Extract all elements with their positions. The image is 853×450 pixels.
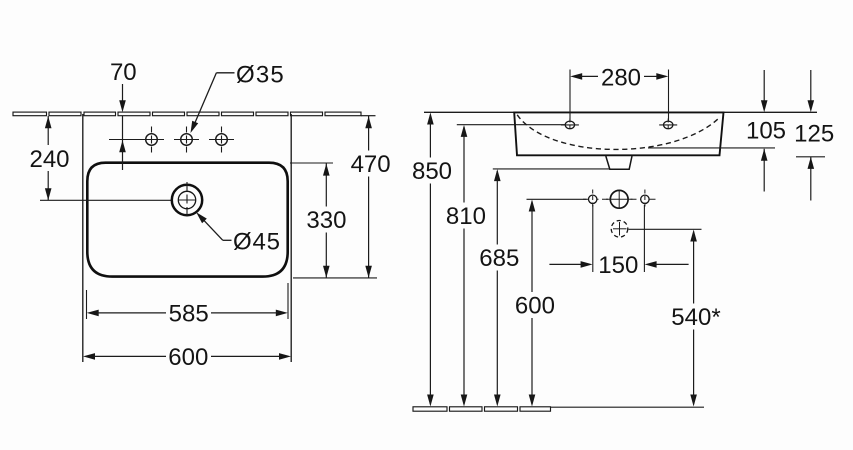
dimension 810 (mounting holes height): [446, 125, 486, 407]
svg-text:105: 105: [746, 118, 786, 145]
svg-text:240: 240: [29, 146, 69, 173]
dimension 600 (tap hole height): [515, 200, 555, 407]
svg-text:70: 70: [110, 59, 137, 86]
dimension 240 (wall to drain centre): [29, 116, 69, 200]
wall line right extension: [361, 115, 376, 117]
drain centreline to 240 extension line: [40, 199, 202, 201]
tap hole 1 (top view): [139, 127, 164, 153]
rim level line (side view): [424, 111, 817, 113]
mounting hole 1 (side view): [561, 119, 579, 132]
mounting hole 2 (side view): [659, 119, 677, 132]
floor line right extension: [551, 406, 705, 408]
basin outer rim right edge / extension line: [290, 114, 292, 362]
label diameter 45 with leader: [196, 212, 281, 255]
dimension 600 (overall width): [83, 344, 291, 371]
tap hole 3 (top view): [209, 127, 234, 153]
dimension 150 (side tap holes spacing): [549, 205, 688, 279]
basin front extension line: [293, 277, 377, 279]
bowl inner profile (dashed): [517, 115, 719, 150]
svg-text:850: 850: [412, 158, 452, 185]
svg-text:685: 685: [479, 245, 519, 272]
dimension 125 (rim to basin bottom): [794, 70, 834, 201]
inner depth extension line (105 ref): [648, 147, 775, 149]
dimension 850 (rim height): [412, 113, 452, 407]
inner bowl outline (top view): [87, 163, 287, 277]
tap hole left (side view): [589, 190, 597, 210]
svg-text:150: 150: [598, 252, 638, 279]
svg-text:810: 810: [446, 203, 486, 230]
dimension 330 (bowl depth): [306, 163, 346, 277]
svg-text:125: 125: [794, 120, 834, 147]
dimension 105 (inner depth): [746, 70, 786, 192]
floor line (segmented band): [413, 407, 551, 411]
basin outer rim left edge / extension line: [82, 114, 84, 362]
svg-text:600: 600: [168, 344, 208, 371]
svg-text:280: 280: [601, 65, 641, 92]
svg-text:540*: 540*: [671, 304, 720, 331]
label diameter 35 with leader: [191, 62, 285, 133]
mounting holes level extension line (810 ref): [457, 124, 566, 126]
outlet bottom extension line (685 ref): [493, 168, 610, 170]
bowl top extension line: [290, 162, 333, 164]
dimension 470 (overall depth): [351, 116, 391, 278]
tap hole centre (side view): [606, 190, 633, 208]
dimension 685 (outlet height): [479, 169, 519, 406]
wall line (left view, segmented band): [13, 112, 361, 116]
tap level extension line (600 ref): [527, 198, 587, 200]
alternative tap level extension line (540 ref): [629, 228, 702, 230]
tap hole centreline dashes (side view): [583, 198, 656, 200]
tap hole centreline extension: [109, 139, 140, 141]
outlet stub: [606, 156, 632, 169]
basin side profile: [514, 112, 723, 155]
dimension 585 (bowl width): [87, 283, 289, 328]
svg-text:470: 470: [351, 151, 391, 178]
svg-text:600: 600: [515, 293, 555, 320]
svg-text:330: 330: [306, 207, 346, 234]
tap hole right (side view): [641, 190, 649, 210]
dimension 70 (wall to tap holes): [110, 59, 137, 170]
dimension 540* (alternative tap height): [671, 230, 720, 407]
alternative tap hole (dashed, side view): [611, 221, 628, 238]
svg-text:Ø45: Ø45: [233, 229, 281, 256]
dimension 280 (mounting holes spacing): [570, 65, 669, 121]
tap hole 2 (top view): [174, 127, 199, 153]
svg-text:Ø35: Ø35: [236, 62, 285, 89]
drain hole (top view): [172, 182, 202, 218]
svg-text:585: 585: [169, 301, 209, 328]
